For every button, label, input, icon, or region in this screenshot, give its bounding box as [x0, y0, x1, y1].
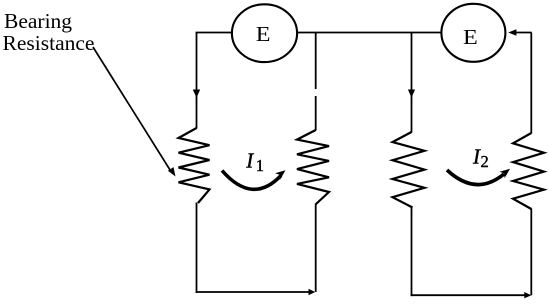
- wire: loop1 right lower vertical: [315, 204, 317, 293]
- annotation arrowhead: [168, 167, 176, 176]
- arrowhead into E2 (points left): [508, 29, 516, 35]
- resistor R2: [297, 130, 329, 204]
- resistor R1 (bearing resistance): [179, 128, 210, 203]
- wire: loop1 bottom horizontal: [196, 291, 310, 293]
- svg-text:I1: I1: [245, 149, 264, 175]
- wire: middle vertical upper segment: [315, 33, 317, 90]
- current loop arc I1: [222, 171, 281, 190]
- svg-text:Resistance: Resistance: [3, 31, 95, 55]
- arrowhead of loop arc I1: [275, 170, 285, 179]
- wire: loop1 left vertical: [196, 33, 198, 129]
- annotation leader line to bearing resistance: [93, 47, 171, 172]
- wire: loop2 right vertical: [530, 33, 532, 134]
- svg-text:E: E: [463, 25, 478, 48]
- source E1 (ellipse): [232, 4, 297, 62]
- wire: top-left horizontal: [196, 32, 233, 34]
- wire: loop2 left vertical: [411, 33, 413, 133]
- svg-text:Bearing: Bearing: [4, 9, 72, 33]
- wire: middle vertical lower segment: [315, 96, 317, 131]
- wire: top middle horizontal: [297, 32, 442, 34]
- svg-text:I2: I2: [472, 145, 489, 171]
- wire: loop2 right lower vertical: [530, 209, 532, 296]
- current loop arc I2: [447, 170, 504, 185]
- svg-text:E: E: [256, 22, 271, 45]
- arrowhead at loop2 bottom (points right): [524, 292, 531, 298]
- current arrowhead on loop1 left wire (down): [193, 90, 200, 98]
- wire: top-right horizontal into E2: [516, 32, 532, 34]
- arrowhead of loop arc I2: [500, 169, 510, 178]
- wire: loop2 left lower vertical: [411, 207, 413, 296]
- resistor R4: [513, 133, 544, 209]
- arrowhead at loop1 bottom (points right): [309, 289, 316, 295]
- wire: loop2 bottom horizontal: [411, 294, 525, 296]
- wire: loop1 left lower vertical: [196, 203, 198, 293]
- source E2 (ellipse): [441, 4, 505, 62]
- resistor R3: [393, 132, 425, 208]
- label "Bearing Resistance": [3, 9, 95, 55]
- current arrowhead on loop2 left wire (down): [408, 90, 415, 98]
